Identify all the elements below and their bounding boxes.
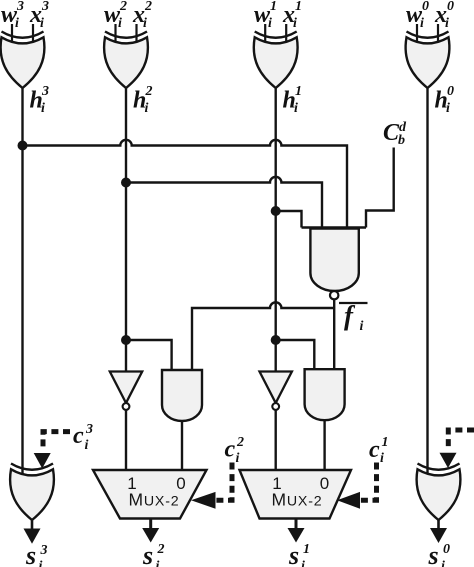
svg-text:2: 2 — [145, 84, 153, 99]
wire row C (h1 to NAND input 3) — [276, 211, 302, 228]
xor gate U1 (top, bit 3) — [1, 32, 45, 89]
wire row F (fbar to AND U8 right input) with hop over h1 — [192, 302, 334, 370]
arrow head c_i^0 — [440, 453, 457, 468]
svg-text:i: i — [156, 559, 160, 567]
and gate U9 (bit 1) — [305, 369, 345, 420]
wire U12 output stem — [31, 520, 34, 531]
node junction h2/rowG — [121, 335, 131, 345]
svg-text:i: i — [268, 16, 272, 31]
svg-text:2: 2 — [157, 542, 165, 557]
svg-text:1: 1 — [295, 84, 302, 99]
svg-text:i: i — [441, 559, 445, 567]
and gate U8 (bit 2) — [162, 370, 202, 421]
wire U2 input stubs — [116, 24, 137, 42]
wire U7 output to mux — [275, 410, 277, 470]
svg-text:0: 0 — [320, 474, 329, 493]
svg-text:i: i — [145, 101, 149, 116]
svg-text:i: i — [301, 559, 305, 567]
wire net c_b^d to NAND input 4 — [366, 148, 394, 228]
svg-text:1: 1 — [382, 435, 389, 450]
svg-text:i: i — [294, 101, 298, 116]
xor gate U3 (top, bit 1) — [254, 32, 298, 89]
svg-text:1: 1 — [295, 0, 302, 14]
svg-text:3: 3 — [40, 543, 48, 558]
svg-text:i: i — [118, 16, 122, 31]
svg-text:2: 2 — [236, 435, 244, 450]
svg-text:i: i — [39, 559, 43, 567]
svg-text:i: i — [40, 16, 44, 31]
wire U3 input stubs — [265, 24, 286, 42]
wire net h2 vertical column — [125, 87, 127, 372]
svg-text:c: c — [225, 437, 236, 463]
svg-text:i: i — [360, 319, 364, 334]
svg-text:i: i — [236, 451, 240, 466]
svg-text:i: i — [420, 16, 424, 31]
inverter U7 (bit 1) — [260, 372, 292, 410]
wire dashed select c_i^3 — [43, 432, 70, 451]
svg-text:s: s — [142, 541, 153, 567]
svg-text:c: c — [369, 437, 380, 463]
wire dashed select c_i^2 — [216, 463, 233, 501]
wire U4 input stubs — [417, 24, 438, 42]
wire U1 input stubs — [12, 24, 33, 42]
xor gate U4 (top, bit 0) — [406, 32, 450, 89]
svg-text:i: i — [293, 16, 297, 31]
svg-text:s: s — [428, 541, 439, 567]
xor gate U2 (top, bit 2) — [104, 32, 148, 89]
mux U11 (Mux-2, bit 1) — [240, 470, 352, 519]
svg-text:0: 0 — [176, 474, 185, 493]
svg-text:3: 3 — [16, 0, 24, 14]
node junction h2/rowB — [121, 178, 131, 188]
wire U13 output stem — [437, 520, 440, 531]
svg-text:0: 0 — [422, 0, 429, 14]
svg-text:i: i — [380, 451, 384, 466]
xor gate U13 (bottom, bit 0) — [417, 464, 461, 521]
svg-text:i: i — [445, 16, 449, 31]
svg-text:i: i — [446, 101, 450, 116]
svg-text:3: 3 — [41, 84, 49, 99]
svg-text:1: 1 — [303, 542, 310, 557]
svg-text:i: i — [41, 101, 45, 116]
node junction h1/rowC — [271, 206, 281, 216]
svg-text:s: s — [288, 541, 299, 567]
wire net h0 vertical column — [426, 87, 428, 476]
inverter U6 (bit 2) — [110, 372, 142, 410]
mux U10 (Mux-2, bit 2) — [93, 470, 207, 519]
nand gate U5 body — [310, 229, 358, 292]
svg-text:1: 1 — [270, 0, 277, 14]
node junction h1/rowG — [271, 335, 281, 345]
svg-text:0: 0 — [447, 84, 454, 99]
svg-text:2: 2 — [119, 0, 127, 14]
wire U8 output to mux — [181, 421, 183, 470]
svg-text:i: i — [15, 16, 19, 31]
wire dashed select c_i^0 — [448, 430, 474, 449]
svg-text:i: i — [85, 438, 89, 453]
svg-text:0: 0 — [447, 0, 454, 14]
svg-text:0: 0 — [443, 542, 450, 557]
svg-text:3: 3 — [85, 422, 93, 437]
wire U9 output to mux — [323, 421, 325, 470]
wire row A (h3 to NAND input 1) with hops over h2 and h1 — [23, 140, 348, 228]
svg-text:3: 3 — [41, 0, 49, 14]
mux U11 output arrow stem — [295, 519, 298, 531]
wire row G right (h1 to AND U9 left input) — [276, 340, 315, 369]
wire U6 output to mux — [125, 410, 127, 470]
wire dashed select c_i^1 — [360, 463, 377, 501]
nand gate U5 input rail — [302, 226, 367, 228]
arrow s_i^3 — [24, 529, 41, 544]
xor gate U12 (bottom, bit 3) — [10, 464, 54, 521]
arrow s_i^0 — [430, 528, 447, 543]
wire row G left (h2 to AND U8 left input) — [126, 340, 172, 370]
svg-text:b: b — [398, 133, 405, 148]
arrow head c_i^1 (into mux U11) — [337, 492, 360, 509]
wire row B (h2 to NAND input 2) with hop over h1 — [126, 177, 322, 228]
node junction h3/rowA — [18, 141, 28, 151]
wire NAND output vertical (to AND U9 right input) — [333, 299, 335, 369]
nand gate U5 output bubble — [330, 291, 338, 299]
arrow head c_i^2 (into mux U10) — [191, 492, 216, 509]
svg-text:i: i — [143, 16, 147, 31]
wire net h3 vertical column — [21, 87, 23, 476]
svg-text:s: s — [25, 541, 36, 567]
svg-text:c: c — [73, 423, 84, 449]
mux U10 output arrow s stem — [149, 519, 152, 531]
svg-text:2: 2 — [144, 0, 152, 14]
arrow head c_i^3 — [34, 453, 51, 469]
wire net h1 vertical column — [275, 87, 277, 372]
label f_i with overline — [339, 302, 368, 304]
